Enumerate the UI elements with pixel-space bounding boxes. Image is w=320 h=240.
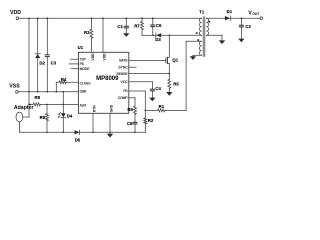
wire VSS rail xyxy=(18,91,78,93)
resistor R5 xyxy=(169,73,171,75)
ground aux xyxy=(190,56,196,60)
capacitor C3 xyxy=(46,18,48,55)
ground C2 xyxy=(240,27,242,39)
svg-text:AUX: AUX xyxy=(80,103,88,107)
wire SYNC stub xyxy=(129,66,136,68)
wire snubber bottom / switch node xyxy=(142,34,156,36)
ground below bottom rail xyxy=(109,132,111,134)
T1 core xyxy=(202,17,204,57)
svg-text:C4: C4 xyxy=(155,86,161,91)
svg-text:MODE: MODE xyxy=(80,67,91,71)
pin MODE xyxy=(71,68,78,70)
wire secondary bottom xyxy=(206,34,222,36)
resistor R7 xyxy=(141,18,143,21)
diode D3 xyxy=(155,33,157,38)
svg-text:U1: U1 xyxy=(78,45,84,50)
resistor R2 xyxy=(144,110,146,118)
T1 primary dot xyxy=(196,32,198,34)
svg-text:D1: D1 xyxy=(227,9,233,14)
svg-text:GATE: GATE xyxy=(119,59,129,63)
resistor R6 xyxy=(134,106,137,114)
pin GND bottom xyxy=(109,113,111,132)
wire vertical VDD-to-VSS left column xyxy=(28,18,30,104)
svg-text:GND: GND xyxy=(109,104,113,112)
svg-text:Adapter: Adapter xyxy=(14,105,34,111)
svg-text:R3: R3 xyxy=(84,30,90,35)
svg-text:D3: D3 xyxy=(155,37,161,42)
capacitor C2 xyxy=(241,17,243,19)
svg-text:D2: D2 xyxy=(39,61,45,66)
svg-text:SYNC: SYNC xyxy=(118,65,128,69)
svg-text:USB: USB xyxy=(80,90,88,94)
svg-text:R7: R7 xyxy=(134,23,140,28)
T1 secondary dot xyxy=(209,21,211,23)
svg-text:C1: C1 xyxy=(117,24,123,29)
wire SENSE xyxy=(129,73,170,75)
ground C1 xyxy=(125,28,127,33)
pin PD xyxy=(69,63,78,65)
svg-text:R2: R2 xyxy=(148,118,154,123)
wire VDD rail xyxy=(19,17,202,19)
svg-text:VSS: VSS xyxy=(9,84,20,90)
resistor R8 on AUX line xyxy=(30,103,78,106)
svg-text:PD: PD xyxy=(80,62,85,66)
svg-text:R4: R4 xyxy=(61,77,67,82)
svg-text:VDD: VDD xyxy=(91,53,95,61)
wire VCC to C4 xyxy=(129,81,153,83)
svg-text:CLASS: CLASS xyxy=(80,81,92,85)
wire adapter bottom / ground rail xyxy=(18,122,20,132)
capacitor C5 xyxy=(133,121,138,123)
pin T2P xyxy=(70,58,78,60)
diode D2 (TVS) xyxy=(37,18,39,54)
svg-text:R9: R9 xyxy=(40,115,46,120)
resistor R9 xyxy=(46,104,48,113)
wire secondary top to D1 xyxy=(206,17,225,19)
capacitor C6 xyxy=(152,18,154,25)
wire FB xyxy=(129,90,146,92)
svg-text:VDD: VDD xyxy=(10,10,21,16)
svg-text:MP8009: MP8009 xyxy=(96,76,119,82)
svg-text:VDD: VDD xyxy=(102,53,106,61)
node VOUT terminal xyxy=(260,17,263,20)
svg-text:OUT: OUT xyxy=(252,12,260,16)
svg-text:C2: C2 xyxy=(245,24,251,29)
svg-text:C5: C5 xyxy=(127,121,133,126)
svg-text:T1: T1 xyxy=(199,9,205,14)
T1 secondary winding xyxy=(206,18,208,35)
transistor Q1 xyxy=(165,58,167,63)
T1 primary winding xyxy=(199,18,201,35)
capacitor C4 xyxy=(150,88,155,90)
op-amp U1 IC body MP8009 xyxy=(78,52,128,113)
svg-text:R1: R1 xyxy=(159,104,165,109)
svg-text:D4: D4 xyxy=(67,114,73,119)
svg-text:RTN: RTN xyxy=(92,105,96,112)
T1 aux winding xyxy=(199,41,201,55)
ground C4 xyxy=(151,91,153,98)
svg-text:C6: C6 xyxy=(156,23,162,28)
svg-text:SENSE: SENSE xyxy=(116,72,128,76)
svg-text:D5: D5 xyxy=(75,137,81,142)
wire aux top to feedback xyxy=(186,40,202,42)
ground secondary xyxy=(219,40,225,44)
diode D5 xyxy=(75,130,80,134)
svg-text:R8: R8 xyxy=(35,95,41,100)
LED D4 column xyxy=(62,92,64,114)
pin RTN bottom xyxy=(92,113,94,132)
svg-text:Q1: Q1 xyxy=(172,58,178,63)
svg-text:R5: R5 xyxy=(173,81,179,86)
wire aux bottom xyxy=(193,54,202,56)
resistor R4 xyxy=(55,82,57,92)
wire COMP xyxy=(129,97,135,99)
svg-text:VCC: VCC xyxy=(121,80,129,84)
resistor R1 xyxy=(145,109,186,112)
svg-text:COMP: COMP xyxy=(118,96,129,100)
wire GATE xyxy=(129,59,166,61)
ground R5 xyxy=(166,92,172,96)
T1 aux dot xyxy=(197,39,199,41)
resistor R3 top pin feed xyxy=(90,18,92,29)
svg-text:R6: R6 xyxy=(127,107,133,112)
svg-text:C3: C3 xyxy=(51,61,57,66)
wire top pin 2 riser xyxy=(102,18,104,52)
capacitor C1 xyxy=(125,18,127,26)
diode D1 xyxy=(225,16,231,20)
svg-text:T2P: T2P xyxy=(80,57,87,61)
